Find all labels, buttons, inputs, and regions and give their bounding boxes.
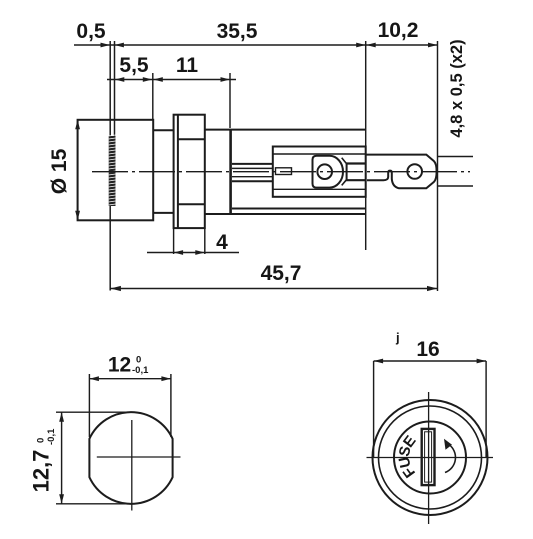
svg-text:4,8 x 0,5 (x2): 4,8 x 0,5 (x2) (448, 39, 466, 137)
stem tube (232, 164, 273, 181)
rotation arrow arc (444, 439, 455, 473)
dimension 45,7 (110, 288, 437, 290)
svg-text:11: 11 (176, 54, 199, 77)
FUSE text curved (396, 433, 420, 481)
faston tab 2 (outer) (366, 155, 437, 189)
Ø15 dimension line (77, 120, 79, 221)
arrowheads second dimension (115, 77, 230, 82)
knurl hatch bar (109, 135, 116, 206)
panel line left (0,5 plate) (109, 41, 111, 291)
crosshair bottom-right (367, 392, 494, 524)
dimension line second (5,5 / 11) (107, 73, 236, 128)
slot in housing (276, 168, 292, 175)
svg-text:0: 0 (136, 355, 141, 366)
body tube (205, 130, 366, 214)
inner circle (394, 422, 466, 494)
extension line right end (437, 41, 439, 291)
svg-text:10,2: 10,2 (378, 19, 419, 42)
svg-text:4: 4 (216, 231, 228, 254)
bushing between cap and nut (153, 129, 173, 131)
centerline of side view (92, 171, 470, 173)
rim circle (379, 406, 482, 509)
faston tab 1 (inner) (313, 156, 366, 188)
svg-text:45,7: 45,7 (261, 262, 302, 285)
svg-text:-0,1: -0,1 (46, 428, 57, 445)
svg-text:5,5: 5,5 (119, 54, 149, 77)
svg-text:35,5: 35,5 (217, 20, 258, 43)
svg-text:-0,1: -0,1 (132, 365, 149, 376)
svg-text:0: 0 (36, 438, 47, 443)
svg-text:Ø 15: Ø 15 (48, 148, 71, 194)
extension line at 35,5 end (365, 41, 367, 250)
svg-text:0,5: 0,5 (76, 20, 106, 43)
svg-text:12,7: 12,7 (29, 450, 54, 493)
cap outline (78, 120, 154, 221)
svg-text:16: 16 (416, 338, 439, 361)
crosshair bottom-left (97, 420, 181, 511)
dimension 12,7 left (56, 412, 128, 504)
dimension 4 (nut) (147, 229, 239, 254)
screwdriver slot (422, 429, 435, 485)
panel line right (114, 41, 116, 206)
dimension line top (0,5 / 35,5 / 10,2) (74, 44, 438, 46)
svg-text:12: 12 (108, 354, 131, 377)
dimension 16 (374, 361, 487, 457)
dimension 12 top (89, 374, 171, 437)
svg-text:j: j (395, 330, 400, 345)
outer circle (373, 400, 488, 515)
hex nut (174, 115, 205, 228)
arrowheads top dimension (101, 43, 438, 48)
contact housing (273, 147, 366, 197)
tab width extension lines (438, 157, 473, 187)
double-D circle (89, 412, 172, 504)
